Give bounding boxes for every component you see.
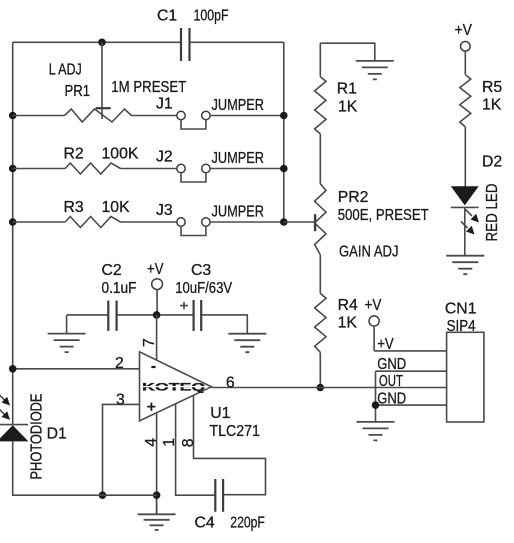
wire row2 J2 to right bus [210,168,284,170]
op-amp minus input mark [151,366,155,368]
svg-text:6: 6 [226,375,235,392]
svg-text:10K: 10K [102,199,131,216]
svg-text:1K: 1K [338,98,358,115]
svg-text:1K: 1K [482,97,502,114]
wire row2 between R2 and J2 [121,168,177,170]
LED D2 emission arrow 1 [466,210,480,223]
wire CN1 row4 GND [376,404,447,406]
svg-text:J2: J2 [156,149,173,166]
svg-text:C2: C2 [102,262,122,279]
jumper J3 [156,202,264,236]
wire row1 between PR1 and J1 [131,115,176,117]
node junction dot R4 bottom on output wire [317,384,325,392]
svg-text:R4: R4 [338,297,358,314]
svg-text:100pF: 100pF [194,8,229,25]
svg-text:220pF: 220pF [230,514,265,531]
svg-text:C1: C1 [157,8,177,25]
svg-text:0.1uF: 0.1uF [102,280,137,297]
photodiode light arrow 2 [0,408,10,420]
KOTEQ logo inside op-amp [142,382,205,394]
svg-text:GAIN ADJ: GAIN ADJ [339,244,399,261]
wire CN1 row1 +V [374,350,447,352]
svg-text:C4: C4 [195,514,215,531]
svg-text:R2: R2 [64,146,84,163]
op-amp plus input mark [147,403,155,411]
svg-text:4: 4 [143,438,160,447]
svg-text:1K: 1K [338,315,358,332]
svg-text:C3: C3 [191,262,211,279]
node junction dot left bus row 2 [9,165,17,173]
svg-text:R1: R1 [337,81,357,98]
LED D2 [451,154,502,256]
resistor R1 1K [315,43,375,184]
node junction dot right bus row2 [280,165,288,173]
wire pin4 vertical [156,413,158,495]
wire pin8 to C4 right plate [194,395,266,494]
wire pin1 vertical to C4 [176,404,216,496]
wire top rail from left bus to C1 left plate [13,41,181,43]
LED D2 emission arrow 2 [461,222,475,235]
ground at C2 [48,334,86,353]
svg-text:JUMPER: JUMPER [212,204,265,221]
wire row2 left segment [13,168,65,170]
wire bottom rail [13,441,157,495]
svg-text:PR2: PR2 [338,189,369,206]
svg-text:100K: 100K [102,146,139,163]
op-amp labels U1 TLC271 [210,405,261,440]
wire left bus [12,42,14,424]
node junction dot pin3 at bottom rail [99,491,107,499]
power +V supply at CN1 [365,297,382,351]
svg-text:J3: J3 [156,202,173,219]
svg-text:500E, PRESET: 500E, PRESET [338,207,429,224]
svg-text:+V: +V [377,336,394,353]
wire supply rail C2 to C3 [67,315,248,334]
capacitor C1 [157,8,229,62]
node junction dot pin4 at bottom rail [153,491,161,499]
svg-text:PHOTODIODE: PHOTODIODE [29,394,46,480]
svg-text:7: 7 [141,338,158,347]
wire CN1 ground vertical [375,371,377,422]
wire row3 left segment [13,221,65,223]
node junction dot CN1 GND [372,401,380,409]
op-amp U1 triangle [140,352,212,421]
capacitor C3 10uF/63V [175,262,232,331]
node junction dot right bus row3 [280,218,288,226]
power +V supply at R5 [455,22,473,75]
svg-text:PR1: PR1 [65,83,91,100]
svg-text:L ADJ: L ADJ [49,61,82,78]
node junction dot left bus row 3 [9,218,17,226]
wire PR1 wiper vertical with T-bar [101,42,103,119]
svg-text:J1: J1 [156,96,173,113]
svg-text:8: 8 [180,438,197,447]
node junction dot left bus row 1 [9,112,17,120]
power +V supply at op-amp [147,261,164,315]
photodiode D1 [0,425,67,443]
wire right bus [283,42,285,222]
node junction dot supply rail pin7 [153,311,161,319]
wire pin7 vertical [156,315,158,360]
wire output pin6 to CN1 [211,387,446,389]
svg-text:SIP4: SIP4 [447,318,476,335]
ground at C3 [228,334,266,353]
resistor R3 10K [64,199,131,228]
wire C2 left drop to ground [66,315,68,334]
wire row1 left segment [13,115,65,117]
jumper J1 [156,96,264,130]
resistor R2 100K [64,146,139,175]
svg-text:KOTEQ: KOTEQ [142,382,205,394]
svg-text:3: 3 [116,392,125,409]
wire row3 between R3 and J3 [121,221,177,223]
svg-text:JUMPER: JUMPER [212,150,265,167]
wire pin3 non-inverting input [103,404,140,495]
svg-text:RED LED: RED LED [484,184,501,242]
photodiode light arrow 1 [0,394,10,406]
wire row3 J3 to right bus [210,221,284,223]
svg-text:D2: D2 [482,154,502,171]
node junction dot right bus row1 [280,112,288,120]
ground at R1 top [356,61,394,80]
wire row1 J1 to right bus [210,115,284,117]
ground at op-amp pin4 [138,499,176,530]
svg-text:GND: GND [377,391,406,408]
svg-text:CN1: CN1 [445,301,477,318]
capacitor C2 0.1uF [102,262,137,331]
ground at CN1 [357,422,395,441]
connector CN1 SIP4 [445,301,484,422]
svg-text:TLC271: TLC271 [210,423,261,440]
resistor R4 1K [315,293,358,387]
potentiometer PR2 500E PRESET [315,184,429,294]
svg-text:R3: R3 [64,199,84,216]
svg-text:1M PRESET: 1M PRESET [111,79,186,96]
resistor R5 1K [460,75,503,187]
ground at LED D2 [446,256,484,275]
potentiometer PR1 1M PRESET [49,61,187,122]
svg-text:+V: +V [365,297,382,314]
svg-text:10uF/63V: 10uF/63V [175,280,232,297]
svg-text:U1: U1 [210,405,230,422]
jumper J2 [156,149,264,183]
wire CN1 row2 GND [376,370,447,372]
wire pin2 inverting input [13,368,140,370]
svg-text:+V: +V [147,261,164,278]
wire top rail from C1 right plate to right bus corner [190,41,284,43]
svg-text:R5: R5 [482,79,502,96]
svg-text:+V: +V [455,22,473,39]
svg-text:OUT: OUT [379,373,403,390]
wire PR2 wiper arrow [284,214,315,231]
node junction dot left bus pin2 [9,365,17,373]
svg-text:JUMPER: JUMPER [212,97,265,114]
svg-text:1: 1 [161,438,178,447]
svg-text:GND: GND [377,356,406,373]
capacitor C4 220pF [195,479,266,531]
node junction dot PR1 wiper at top rail [98,39,106,47]
svg-text:D1: D1 [47,426,67,443]
svg-text:2: 2 [115,355,124,372]
